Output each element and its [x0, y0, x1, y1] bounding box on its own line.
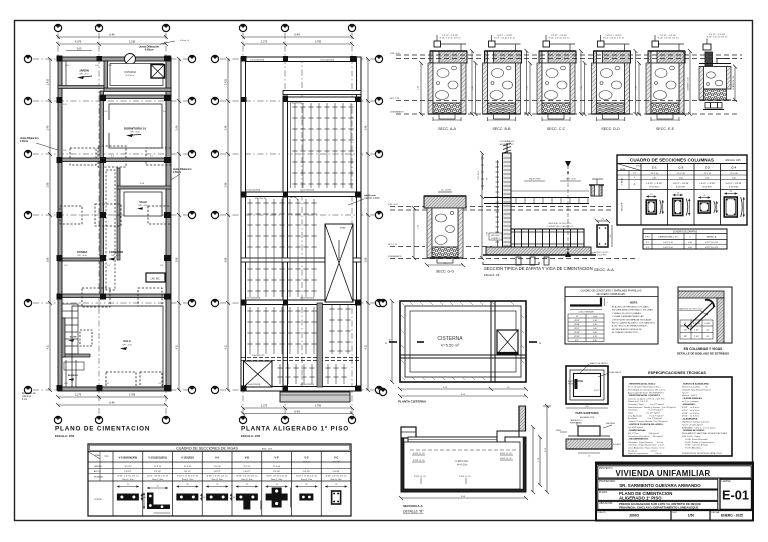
svg-text:4 Ø 1/2" + 2 Ø 3/8": 4 Ø 1/2" + 2 Ø 3/8": [699, 183, 715, 185]
section cut arrow A bottom: [565, 251, 571, 257]
svg-text:V-S: V-S: [304, 456, 308, 460]
svg-text:CONCRETO: CONCRETO: [660, 109, 671, 111]
svg-text:SS.HH: SS.HH: [70, 337, 77, 339]
svg-text:3/8": 3/8": [684, 336, 688, 338]
svg-text:.25 X .40: .25 X .40: [677, 173, 686, 175]
svg-text:15 X 20: 15 X 20: [333, 462, 341, 464]
svg-text:APOYO: APOYO: [94, 470, 101, 473]
svg-text:LONG. EMPALME: LONG. EMPALME: [578, 311, 594, 314]
black column squares: [57, 56, 172, 392]
svg-text:4.31: 4.31: [365, 344, 368, 349]
svg-text:NPT +0.30: NPT +0.30: [77, 255, 86, 257]
stakes below solado: [516, 257, 521, 265]
svg-text:S/C 1º Piso: 2: S/C 1º Piso: 200 kg/cm²: [628, 432, 659, 435]
bottom leader labels: [420, 478, 422, 484]
svg-text:VIGA: VIGA: [95, 454, 100, 457]
svg-text:Concreto Ciclopeo: C:H 1:10 +: Concreto Ciclopeo: C:H 1:10 + 30% P.G.: [628, 397, 665, 400]
grid bubble row1 left: [24, 55, 31, 62]
svg-text:ESC: 1/25: ESC: 1/25: [262, 448, 273, 450]
svg-text:Ø 1/4" EST.: Ø 1/4" EST.: [702, 187, 712, 189]
bottom dim chain: [398, 387, 528, 398]
narrow footing section F: [682, 34, 737, 116]
svg-text:COMEDOR: COMEDOR: [109, 250, 123, 254]
svg-text:Corredores y Escaleras: 20: Corredores y Escaleras: 200 kg/cm²: [628, 435, 663, 438]
column section drawing C-1: [646, 194, 664, 214]
wall tick marks: [401, 302, 524, 380]
solado / sobrecimiento detail: [576, 422, 578, 426]
svg-text:Ø 1/4" EST.: Ø 1/4" EST.: [649, 187, 659, 189]
svg-text:Rsto @ .20m: Rsto @ .20m: [301, 478, 312, 481]
svg-text:3.98: 3.98: [365, 257, 368, 262]
grid bubble E bottom: [281, 416, 288, 423]
svg-text:Tipo IV: Tipo IV: [682, 392, 689, 394]
ss.hh inner: [124, 192, 162, 216]
svg-text:EN OBRA SERA CORRUGADO, SIN US: EN OBRA SERA CORRUGADO, SIN USAR: [612, 309, 653, 312]
svg-text:Sobrecimientos / Gradas y Zapa: Sobrecimientos / Gradas y Zapatas: f'c= …: [628, 406, 676, 409]
svg-text:SECCION A-A: SECCION A-A: [403, 504, 424, 508]
grid bubble D bottom: [239, 416, 246, 423]
section cut arrow A top: [565, 161, 571, 167]
bottom cells: [670, 510, 672, 520]
mid-right bubbles: [375, 55, 382, 62]
grid bubble row3 right: [188, 150, 195, 157]
svg-text:V.C. 25X40: V.C. 25X40: [441, 190, 452, 192]
svg-text:PLANCHA 1/8": PLANCHA 1/8": [609, 371, 622, 374]
svg-text:2.275: 2.275: [261, 41, 268, 44]
svg-text:2 Ø 1/2": 2 Ø 1/2": [213, 471, 221, 473]
top hatched band: [678, 291, 724, 298]
svg-text:4 Ø 1/2" + 2 Ø 3/8": 4 Ø 1/2" + 2 Ø 3/8": [646, 183, 662, 185]
jardin inner line: [65, 61, 67, 88]
interior beam mid: [241, 258, 361, 262]
svg-text:Escaleras:: Escaleras: 2.0 cm: [628, 449, 657, 452]
svg-text:- RESISTENCIA DEL SUELO:: - RESISTENCIA DEL SUELO:: [628, 383, 656, 386]
level dashed lines across sections: [396, 55, 742, 114]
top slab double line: [408, 437, 497, 442]
svg-text:V-A (25X20): V-A (25X20): [290, 102, 302, 105]
svg-text:3.780: 3.780: [315, 41, 322, 44]
stairs X box: [325, 224, 353, 302]
svg-text:6.40: 6.40: [294, 409, 300, 413]
svg-text:EN EL CUADRO ADJUNTO, CON GANC: EN EL CUADRO ADJUNTO, CON GANCHOS: [612, 322, 655, 325]
svg-text:SUPERVISION TECNICA DE OBRA: R: SUPERVISION TECNICA DE OBRA: R.N.E.: [682, 452, 723, 455]
mid-left bubbles: [211, 55, 218, 62]
svg-text:V-102 (25X20): V-102 (25X20): [246, 190, 260, 192]
joists field 3: [279, 364, 281, 384]
svg-text:ASENTADO: C:A 1:5 - 1.5 cm Jun: ASENTADO: C:A 1:5 - 1.5 cm Juntas: [682, 426, 716, 429]
svg-text:Ø 1/4": 1 @ .05, 4 @ .10: Ø 1/4": 1 @ .05, 4 @ .10: [207, 476, 228, 478]
svg-text:PROYECTO:: PROYECTO:: [599, 467, 613, 470]
detail leader circle: [290, 197, 298, 201]
svg-text:V-B: V-B: [245, 456, 249, 460]
svg-text:V-P: V-P: [275, 456, 279, 460]
svg-text:Rsto @ .20m: Rsto @ .20m: [212, 478, 223, 481]
column section drawing C-2: [673, 193, 691, 216]
svg-text:Solado e=4" C:H 1:12: Solado e=4" C:H 1:12: [628, 401, 649, 403]
svg-text:ESCALA: 1/25: ESCALA: 1/25: [580, 416, 595, 419]
svg-text:Ø 5/8" L= 0.60 m: Ø 5/8" L= 0.60 m: [682, 413, 699, 415]
svg-text:25 X 20: 25 X 20: [214, 466, 222, 468]
svg-text:LAMINA:: LAMINA:: [722, 480, 732, 483]
svg-text:- MUROS DE ALBANILERIA:: - MUROS DE ALBANILERIA:: [682, 383, 710, 386]
svg-text:viguetas colada: viguetas colada: [364, 197, 380, 200]
svg-text:NPT -1.20: NPT -1.20: [390, 98, 400, 100]
cuadro de zapatas box: [643, 229, 727, 249]
svg-text:Ø 1/4": 1 @ .05, 4 @ .10: Ø 1/4": 1 @ .05, 4 @ .10: [603, 38, 624, 40]
small wall stub: [117, 215, 120, 260]
svg-text:JUNIO: JUNIO: [629, 513, 640, 517]
svg-text:15 X 20: 15 X 20: [303, 462, 311, 464]
svg-text:0.60: 0.60: [593, 332, 597, 334]
svg-text:CORTE: CORTE: [94, 499, 102, 501]
column left rebar ladder: [497, 160, 499, 250]
top grid bubbles row: dashed axis lines: [33, 33, 188, 415]
svg-text:TIPO: TIPO: [636, 166, 641, 168]
svg-text:Ø 1/4": 1 @ .05, 4 @ .10: Ø 1/4": 1 @ .05, 4 @ .10: [147, 476, 168, 478]
svg-text:CIMIENTO 1.00: CIMIENTO 1.00: [688, 77, 690, 90]
svg-text:V=5.50 m³: V=5.50 m³: [125, 74, 135, 77]
svg-text:E-01: E-01: [722, 488, 749, 503]
svg-text:SS.HH: SS.HH: [139, 201, 147, 204]
right dim lines of section: [531, 404, 551, 494]
top dimension chain 1: [56, 35, 168, 51]
porch strip below plan: [280, 392, 350, 402]
svg-text:.25 X .60: .25 X .60: [730, 173, 739, 175]
left footing dims: [413, 208, 415, 258]
svg-text:ENERO - 2025: ENERO - 2025: [721, 513, 743, 517]
svg-text:- EMPALMES:: - EMPALMES:: [682, 403, 696, 406]
stirrup diagonal bars: [687, 303, 715, 330]
svg-text:4.075: 4.075: [75, 41, 82, 44]
svg-text:2.60: 2.60: [77, 48, 82, 51]
black columns in slab plan: [241, 56, 361, 391]
grid bubble row5 left: [24, 299, 31, 306]
interior beam at grid row 4: [241, 192, 361, 197]
horizontal double line lower: [400, 354, 526, 356]
svg-text:ALIGERADO 1° PISO: ALIGERADO 1° PISO: [619, 495, 662, 500]
svg-text:DETALLE DE DOBLADO DE ESTRIBOS: DETALLE DE DOBLADO DE ESTRIBOS: [677, 352, 729, 356]
svg-text:SECC. D-D: SECC. D-D: [601, 127, 620, 131]
svg-text:Ø 3/8" @ .20: Ø 3/8" @ .20: [414, 476, 426, 478]
svg-text:2.98: 2.98: [47, 182, 50, 187]
svg-text:25 X 20: 25 X 20: [184, 466, 192, 468]
grid bubble F top: [348, 24, 355, 31]
svg-text:V-A (25X 20): V-A (25X 20): [255, 197, 267, 200]
svg-text:V-C: V-C: [334, 456, 338, 460]
svg-text:V-101 (25X20): V-101 (25X20): [250, 60, 264, 62]
svg-text:2.50cm: 2.50cm: [20, 140, 28, 143]
svg-text:columna: columna: [22, 396, 31, 398]
stairs bottom-left: [62, 304, 78, 354]
grid bubble A bottom: [54, 416, 61, 423]
svg-text:2 Ø 1/2": 2 Ø 1/2": [243, 471, 251, 473]
svg-text:Columnas / Vigas (Superiores):: Columnas / Vigas (Superiores): 2.5 cm: [628, 444, 665, 447]
svg-text:3.98: 3.98: [225, 257, 228, 262]
relleno label at column base: [489, 233, 502, 240]
section cut marks left/right: [389, 341, 397, 343]
svg-text:A 135° EN LOS EXTREMOS SEGUN: A 135° EN LOS EXTREMOS SEGUN: [612, 325, 647, 328]
svg-text:4 Ø 1/2" + 2 Ø 3/8": 4 Ø 1/2" + 2 Ø 3/8": [726, 183, 742, 185]
svg-text:NTN +0.00: NTN +0.00: [388, 204, 399, 206]
svg-text:Ø 5/8": Ø 5/8": [574, 332, 580, 334]
svg-text:Ø 1/4" EST.: Ø 1/4" EST.: [676, 187, 686, 189]
svg-text:SALA: SALA: [123, 339, 131, 343]
floor slab lines to right: [484, 197, 589, 199]
svg-text:Ø 1": Ø 1": [575, 340, 579, 342]
svg-text:Ø 1/4": 1 @ .05, 4 @ .10: Ø 1/4": 1 @ .05, 4 @ .10: [707, 37, 728, 39]
svg-text:Ø 3/8" @ .20: Ø 3/8" @ .20: [500, 453, 512, 455]
outer wall bottom: [58, 387, 171, 391]
svg-text:Ø 3/8" @ .20: Ø 3/8" @ .20: [413, 453, 425, 455]
svg-text:2.425: 2.425: [47, 78, 50, 85]
left footing top rebar text: [438, 191, 452, 193]
svg-text:4 Ø 1/2" + 2 Ø 3/8": 4 Ø 1/2" + 2 Ø 3/8": [673, 183, 689, 185]
svg-text:SE INDICA EN EL DETALLE DE: SE INDICA EN EL DETALLE DE: [612, 328, 643, 331]
svg-text:Cimientos / Vigas: f': Cimientos / Vigas: f'c= 175 kg/cm²: [628, 403, 664, 406]
svg-text:1 1/2": 1 1/2": [694, 330, 699, 332]
svg-text:fy = 4200 kg/cm²: fy = 4200 kg/cm²: [628, 426, 644, 429]
ss.hh walls: [117, 168, 120, 218]
svg-text:CUADRO DE SECCIONES COLUMNAS: CUADRO DE SECCIONES COLUMNAS: [630, 158, 714, 163]
svg-text:2 Ø 1/2": 2 Ø 1/2": [184, 471, 192, 473]
svg-text:0.50: 0.50: [593, 328, 597, 330]
interior beam slab edge: [283, 91, 361, 95]
svg-text:E.060 Concreto Armado: E.060 Concreto Armado: [682, 444, 709, 447]
left footing pit: [427, 208, 432, 258]
svg-text:V-104 (25X20): V-104 (25X20): [246, 384, 260, 386]
svg-text:UBICACION:: UBICACION:: [599, 502, 613, 505]
buzon circle on top wall: [125, 54, 136, 65]
svg-text:Ø 1/4": 1 @ .05, 4 @ .10: Ø 1/4": 1 @ .05, 4 @ .10: [237, 476, 258, 478]
svg-text:Ø 1/4": 1 @ .05, 4 @ .10: Ø 1/4": 1 @ .05, 4 @ .10: [266, 476, 287, 478]
svg-text:2 Ø 5/8": 2 Ø 5/8": [273, 471, 281, 473]
outer wall top: [58, 57, 171, 61]
svg-text:2.275: 2.275: [261, 405, 268, 408]
svg-text:INGRESO: INGRESO: [68, 375, 78, 377]
left vertical dim chain: [226, 57, 230, 392]
svg-text:Rsto @ .20m: Rsto @ .20m: [152, 478, 163, 481]
cisterna interior wall: [104, 61, 108, 91]
svg-text:e= 3 cm (minimo): e= 3 cm (minimo): [682, 401, 699, 403]
bottom-left X box: [244, 361, 273, 387]
svg-text:Rsto @ .20m: Rsto @ .20m: [331, 478, 342, 481]
column section drawing C-3: [698, 195, 718, 213]
svg-text:Ø 1/4" EST.: Ø 1/4" EST.: [597, 255, 607, 257]
wall at grid4b: [58, 258, 103, 261]
svg-text:SECCION TIPICA DE ZAPATA Y VIG: SECCION TIPICA DE ZAPATA Y VIGA DE CIMEN…: [484, 266, 593, 271]
joists field 2b: [249, 307, 251, 354]
svg-text:COLUMNA C-1: COLUMNA C-1: [500, 140, 516, 143]
cuadro de secciones columnas box: [617, 155, 747, 225]
svg-text:NPT +0.30: NPT +0.30: [138, 205, 147, 207]
svg-text:ladrillo para: ladrillo para: [364, 194, 377, 197]
beam section icon V-102(202): [176, 484, 206, 501]
svg-text:V-101(201)(301): V-101(201)(301): [148, 456, 167, 460]
grid bubble B top: [95, 24, 102, 31]
svg-text:V-100(200)(300): V-100(200)(300): [119, 456, 138, 460]
svg-text:- JUNTAS SISMICAS:: - JUNTAS SISMICAS:: [682, 397, 703, 400]
svg-text:A: A: [539, 341, 541, 345]
jardin bottom wall: [58, 86, 107, 89]
svg-text:0.30: 0.30: [593, 320, 597, 322]
svg-text:ESCALA: 1/50: ESCALA: 1/50: [241, 434, 261, 438]
left footing SECC G-G top band: [424, 196, 466, 208]
beam section icon V-S: [295, 484, 317, 501]
water level dashes: [410, 449, 517, 451]
svg-text:CISTERNA: CISTERNA: [124, 71, 136, 74]
svg-text:SOBRECIM. .60: SOBRECIM. .60: [733, 76, 735, 90]
values table: [568, 314, 604, 342]
svg-text:Ø 1/2" @ 0.175: Ø 1/2" @ 0.175: [705, 247, 718, 249]
svg-text:a:b: a:b: [633, 173, 636, 175]
svg-text:NOTA:: NOTA:: [630, 301, 638, 305]
svg-text:V-103 (25X20): V-103 (25X20): [246, 298, 260, 300]
svg-text:2 Ø 1/2": 2 Ø 1/2": [154, 471, 162, 473]
left grid bubble cistern: [379, 299, 386, 306]
svg-text:TIPO: TIPO: [104, 456, 109, 458]
dims: [566, 407, 608, 409]
title block top heavy bar: [596, 462, 753, 465]
svg-text:Ø 3/4" L= 0.70 m: Ø 3/4" L= 0.70 m: [682, 416, 699, 418]
sala inner outline: [72, 306, 163, 387]
svg-text:LAV. INC.: LAV. INC.: [151, 278, 161, 281]
svg-text:NTN +0.00: NTN +0.00: [390, 53, 401, 55]
left grid bubble cistern lower: [379, 388, 386, 395]
svg-text:E.050 Suelos y Cimentaciones: E.050 Suelos y Cimentaciones: [682, 441, 714, 444]
svg-text:Ø 1/4": 1 @ .05, 4 @ .10: Ø 1/4": 1 @ .05, 4 @ .10: [326, 476, 347, 478]
svg-text:Rsto @ .20m: Rsto @ .20m: [182, 478, 193, 481]
left vertical dimension chain: [48, 57, 52, 392]
svg-text:C-4: C-4: [731, 166, 736, 170]
proyecto row box: [598, 466, 752, 478]
svg-text:Ø 3/4": Ø 3/4": [574, 336, 580, 338]
joists field 1: [294, 103, 296, 188]
svg-text:0.50: 0.50: [688, 242, 692, 244]
svg-text:.25 X .25: .25 X .25: [703, 173, 712, 175]
svg-text:6.40: 6.40: [109, 33, 115, 37]
svg-text:E.070 Albanileria: E.070 Albanileria: [682, 447, 702, 450]
svg-text:4.31: 4.31: [176, 344, 179, 349]
svg-text:EL ACERO DE REFUERZO UTILIZADO: EL ACERO DE REFUERZO UTILIZADO: [612, 306, 650, 309]
svg-text:Ø 1/4": 1 @ .05, 4 @ .10: Ø 1/4": 1 @ .05, 4 @ .10: [296, 476, 317, 478]
svg-text:Ø 3/8" L= 0.40 m: Ø 3/8" L= 0.40 m: [682, 407, 699, 409]
beam section icon V-101(201)(301): [143, 486, 170, 514]
svg-text:Columnas / Vigas (Sotano):: Columnas / Vigas (Sotano): 4.0 cm: [628, 441, 663, 444]
svg-text:ESCALA: 1/25: ESCALA: 1/25: [726, 159, 742, 162]
svg-text:Tipo IV - f'm=65 kg/cm²: Tipo IV - f'm=65 kg/cm²: [682, 423, 703, 426]
svg-text:Escaleras: f': Escaleras: f'c= 175 kg/cm²: [628, 417, 662, 420]
svg-text:A: A: [385, 341, 387, 345]
svg-text:V-102(202): V-102(202): [181, 456, 194, 460]
svg-text:N=-0.60m: N=-0.60m: [457, 464, 468, 467]
right vertical dimension chain: [177, 57, 181, 392]
svg-text:Y VIGAS. DEBERAN TENER LAS: Y VIGAS. DEBERAN TENER LAS: [612, 315, 644, 318]
interior beam at grid row 5: [241, 300, 361, 305]
outer beam top: [241, 57, 361, 62]
beam section icon V-A: [206, 484, 236, 501]
ingreso small rects: [80, 330, 92, 346]
beam section icon V-B: [236, 484, 261, 510]
svg-text:ESCALA: 1/8: ESCALA: 1/8: [484, 273, 500, 277]
svg-text:h: h: [634, 177, 635, 179]
svg-text:Ø 1/4": 1 @ .05, 4 @ .10: Ø 1/4": 1 @ .05, 4 @ .10: [440, 38, 461, 40]
bottom dimension chain: [241, 406, 354, 416]
svg-text:GANCHO A 135° EST. Ø 1/4": GANCHO A 135° EST. Ø 1/4": [679, 308, 703, 311]
cisterna bottom wall: [104, 88, 171, 92]
ubicacion row box: [598, 501, 718, 509]
svg-text:1.00 X 1.20: 1.00 X 1.20: [663, 242, 673, 244]
grid bubble row6 right: [188, 386, 195, 393]
svg-text:4.31: 4.31: [225, 344, 228, 349]
footing section SECC. E-E: [637, 35, 692, 121]
svg-text:6.40: 6.40: [294, 33, 300, 37]
beam labels: [246, 60, 334, 387]
svg-text:PROVINCIA: CHICLAYO; DEPARTAME: PROVINCIA: CHICLAYO; DEPARTAMENTO LAMBAY…: [619, 505, 699, 509]
outer wall left: [58, 57, 62, 391]
svg-text:- SOBRECARGAS:: - SOBRECARGAS:: [628, 429, 646, 432]
svg-text:DIMENSIONES a X b: DIMENSIONES a X b: [658, 237, 678, 239]
svg-text:Y GRADO 60, EN COLUMNAS: Y GRADO 60, EN COLUMNAS: [612, 312, 641, 315]
lav int rect: [146, 273, 165, 282]
grid bubble row4 right: [188, 211, 195, 218]
svg-text:Profundidad de Cimentacion: Df: Profundidad de Cimentacion: Df= 1.20 m.: [628, 389, 666, 392]
footing section SECC. B-B: [474, 35, 529, 121]
svg-text:EST. Ø1/4": EST. Ø1/4": [478, 170, 480, 179]
svg-text:SUBE: SUBE: [340, 228, 346, 230]
svg-text:3.785: 3.785: [129, 394, 136, 397]
svg-text:V-103 (25X20): V-103 (25X20): [300, 298, 314, 300]
svg-text:1/4": 1/4": [684, 330, 688, 332]
svg-text:CENTRO: CENTRO: [94, 466, 103, 468]
svg-text:E.030 Sismo Resistente: E.030 Sismo Resistente: [682, 438, 709, 441]
svg-text:2.48: 2.48: [47, 125, 50, 130]
svg-text:a Nivel +0: a Nivel +0: [180, 40, 190, 42]
mid column section rect: [597, 225, 608, 247]
outer beam left: [241, 57, 246, 391]
svg-text:EL CUADRO RESPECTIVO.: EL CUADRO RESPECTIVO.: [612, 331, 639, 334]
thick walls U shape: [401, 437, 526, 492]
svg-text:2 Ø 1/2": 2 Ø 1/2": [124, 471, 132, 473]
column of section (tall): [503, 153, 512, 248]
svg-text:SECC. C-C: SECC. C-C: [547, 127, 566, 131]
svg-text:CUADRO DE ZAPATAS: CUADRO DE ZAPATAS: [673, 230, 698, 233]
svg-text:25 X 20: 25 X 20: [243, 466, 251, 468]
svg-text:2 1/4": 2 1/4": [694, 336, 699, 338]
svg-text:SECC. E-E: SECC. E-E: [656, 127, 675, 131]
svg-text:1º NIVEL: 1º NIVEL: [621, 178, 624, 186]
svg-text:- ALBANILERIA:: - ALBANILERIA:: [682, 418, 698, 421]
svg-text:COCINA: COCINA: [77, 250, 88, 254]
svg-text:SECC. B-B: SECC. B-B: [493, 127, 512, 131]
wall at grid row5: [58, 294, 171, 298]
svg-text:5 cm: 5 cm: [22, 399, 27, 401]
grid bubble C top: [162, 24, 169, 31]
gray duct band: [317, 303, 323, 387]
svg-text:3.780: 3.780: [315, 405, 322, 408]
top dimension chain: [241, 35, 354, 46]
svg-text:4.00cm: 4.00cm: [145, 48, 154, 52]
grid bubble row6 left: [24, 386, 31, 393]
grid bubble C bottom: [162, 416, 169, 423]
svg-text:PLANO:: PLANO:: [599, 491, 608, 494]
svg-text:6.40: 6.40: [109, 401, 115, 405]
svg-text:h: h: [689, 237, 690, 239]
svg-text:EN COLUMNAS Y VIGAS: EN COLUMNAS Y VIGAS: [684, 347, 724, 351]
wall at grid3: [58, 158, 171, 162]
svg-text:SECCION: SECCION: [622, 202, 624, 211]
svg-text:JARDIN: JARDIN: [79, 69, 89, 73]
svg-text:1/50: 1/50: [688, 513, 695, 517]
